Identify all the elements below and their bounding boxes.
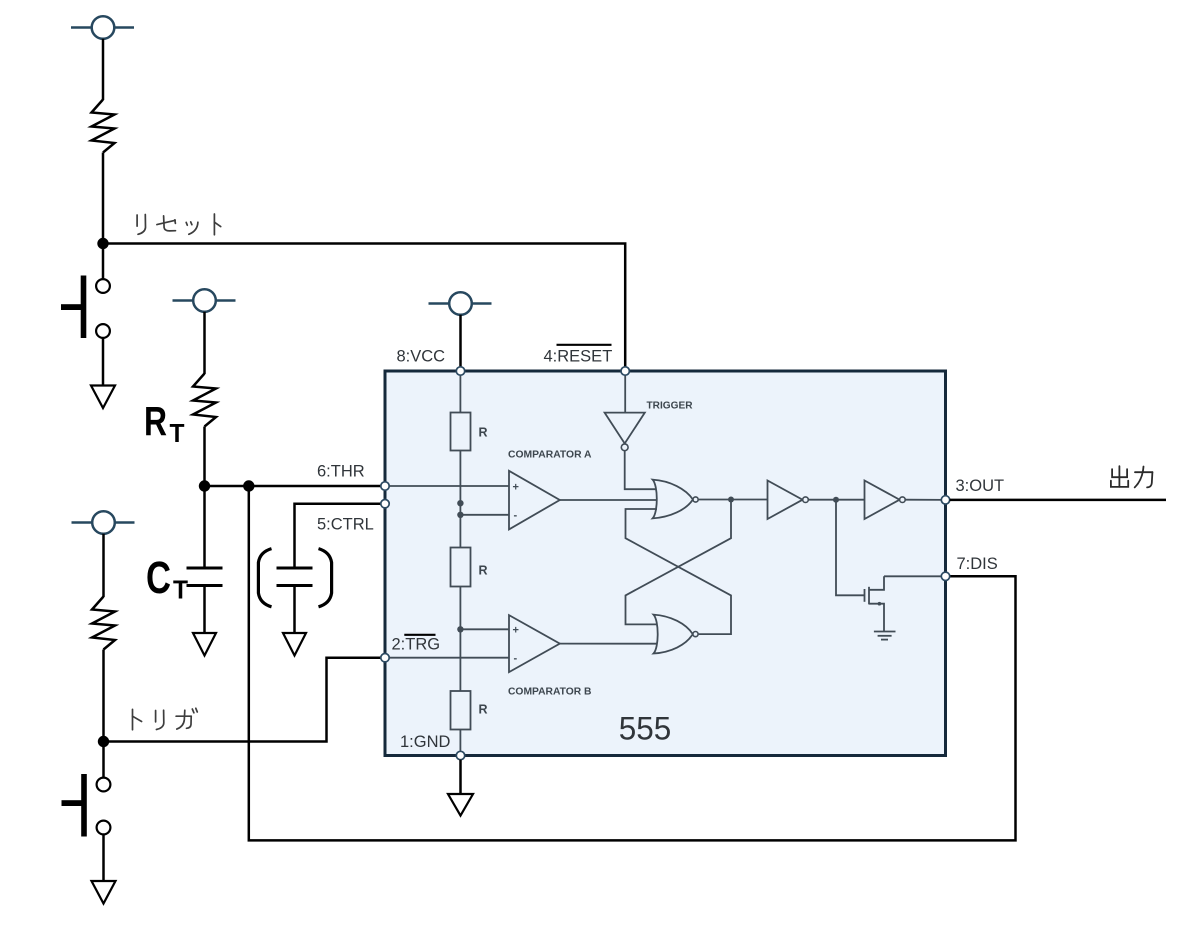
- pin 6 THR: [381, 482, 389, 490]
- power source P2: [173, 289, 236, 312]
- capacitor C ctrl (optional): [277, 568, 313, 586]
- wire: [102, 39, 105, 100]
- label トリガ: [133, 708, 198, 730]
- pushbutton SW2 (trigger): [62, 774, 111, 837]
- pushbutton SW1 (reset): [61, 276, 110, 339]
- wire comparator B plus: [460, 628, 509, 630]
- pin 3 OUT: [941, 496, 949, 504]
- svg-text:8:VCC: 8:VCC: [397, 348, 446, 366]
- svg-text:R: R: [479, 426, 488, 440]
- node buffer out: [833, 497, 839, 503]
- power source P1: [71, 16, 134, 39]
- wire gate drive: [836, 500, 865, 596]
- node trigger (junction): [98, 736, 109, 747]
- svg-text:7:DIS: 7:DIS: [957, 555, 998, 573]
- wire: [808, 499, 864, 501]
- svg-text:+: +: [513, 481, 519, 493]
- svg-text:T: T: [173, 575, 188, 605]
- wire DIS node to pin7: [249, 486, 1016, 840]
- node substrate: [878, 602, 882, 606]
- svg-text:3:OUT: 3:OUT: [956, 477, 1005, 495]
- wire trigger to pin2: [104, 658, 386, 742]
- wire: [102, 742, 105, 778]
- wire output: [950, 499, 1166, 502]
- ground (CT): [193, 633, 216, 656]
- wire: [102, 534, 105, 597]
- wire: [102, 834, 105, 881]
- wire comparator A minus: [460, 514, 509, 516]
- svg-text:R: R: [479, 564, 488, 578]
- power source P4 (VCC): [429, 292, 492, 315]
- wire THR to pin6: [205, 485, 386, 488]
- wire reset to pin4: [103, 244, 625, 372]
- parenthesis right: [319, 549, 332, 607]
- svg-text:COMPARATOR A: COMPARATOR A: [508, 449, 592, 461]
- pin 1 GND: [456, 751, 464, 759]
- wire comparator B out: [560, 643, 658, 645]
- svg-text:COMPARATOR B: COMPARATOR B: [508, 686, 592, 698]
- svg-text:-: -: [514, 510, 518, 522]
- svg-text:T: T: [170, 418, 185, 448]
- pin 7 DIS: [941, 572, 949, 580]
- wire latch feedback nor A out to nor B in: [626, 500, 732, 625]
- wire trigger to nor A: [625, 451, 657, 490]
- wire buffer2 to pin3: [905, 499, 945, 501]
- inverter buffer 2: [865, 481, 900, 520]
- power source P3: [72, 511, 135, 534]
- pin 8 VCC: [456, 367, 464, 375]
- wire nor A out: [699, 499, 768, 501]
- resistor RT: [193, 374, 216, 427]
- wire: [203, 427, 206, 487]
- op-amp comparator A: [509, 471, 560, 530]
- node divider-ctrl: [457, 500, 463, 506]
- inverter trigger (reset buffer): [624, 371, 626, 413]
- wire comparator A out: [560, 499, 657, 501]
- IC U1 555 body: [385, 371, 946, 756]
- wire: [102, 153, 105, 244]
- svg-text:-: -: [514, 653, 518, 665]
- svg-text:2:TRG: 2:TRG: [392, 636, 441, 654]
- wire CTRL from pin5: [295, 504, 386, 568]
- inverter buffer 1: [768, 481, 803, 520]
- capacitor CT: [187, 568, 223, 586]
- svg-text:R: R: [144, 398, 167, 444]
- wire 1:GND to ground: [459, 760, 462, 794]
- NOR gate A: [653, 480, 693, 519]
- svg-text:1:GND: 1:GND: [400, 733, 451, 751]
- divider rail: [459, 371, 461, 756]
- wire: [203, 312, 206, 374]
- ground (ctrl cap): [283, 633, 306, 656]
- svg-text:5:CTRL: 5:CTRL: [317, 516, 374, 534]
- svg-text:R: R: [479, 703, 488, 717]
- resistor R reset pull-up: [92, 100, 115, 153]
- wire THR input: [385, 485, 509, 487]
- ground (reset branch): [91, 386, 115, 409]
- pin 2 TRG: [381, 654, 389, 662]
- svg-text:6:THR: 6:THR: [317, 463, 365, 481]
- parenthesis left: [258, 549, 271, 607]
- node nor A out: [728, 497, 734, 503]
- node reset (junction): [97, 238, 108, 249]
- wire: [293, 586, 296, 634]
- resistor R2 (divider): [451, 548, 471, 587]
- node DIS (junction): [243, 480, 254, 491]
- svg-text:C: C: [146, 552, 171, 603]
- op-amp comparator B: [509, 615, 560, 672]
- wire: [203, 586, 206, 634]
- pin 5 CTRL: [381, 500, 389, 508]
- wire: [102, 244, 105, 280]
- ground (IC gnd): [448, 794, 473, 816]
- svg-text:TRIGGER: TRIGGER: [647, 400, 693, 412]
- wire: [102, 650, 105, 742]
- resistor R1 (divider): [451, 413, 471, 451]
- resistor R3 (divider): [451, 691, 471, 730]
- ground (trigger branch): [92, 881, 116, 904]
- node divider-compA: [457, 512, 463, 518]
- wire comparator B minus: [385, 657, 509, 659]
- wire vcc: [459, 315, 462, 371]
- node divider-compB: [457, 626, 463, 632]
- wire: [203, 486, 206, 568]
- svg-text:4:RESET: 4:RESET: [544, 348, 613, 366]
- wire latch feedback nor B out to nor A in: [626, 509, 732, 634]
- svg-text:555: 555: [619, 710, 672, 746]
- node THR (junction): [199, 480, 210, 491]
- ground (internal signal gnd): [874, 627, 896, 640]
- wire: [102, 338, 105, 386]
- label リセット: [137, 214, 221, 235]
- pin 4 RESET: [621, 367, 629, 375]
- wire pin7 internal: [884, 575, 946, 577]
- resistor R trigger pull-up: [92, 597, 115, 650]
- transistor Q1 discharge mosfet: [865, 576, 885, 627]
- label 出力: [1111, 466, 1153, 487]
- NOR gate B: [654, 615, 693, 654]
- svg-text:+: +: [513, 625, 519, 637]
